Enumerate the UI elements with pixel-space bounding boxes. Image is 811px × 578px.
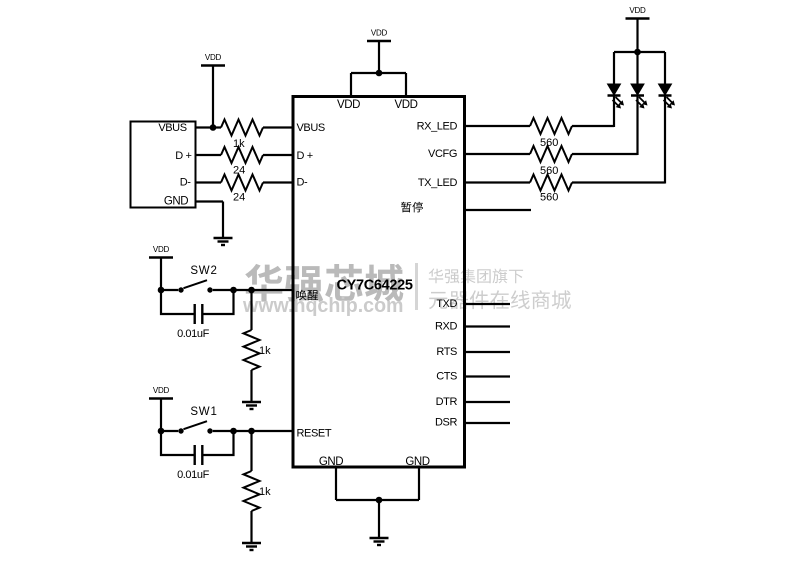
ground (connector GND) bbox=[214, 238, 233, 245]
label 唤醒 (wake pin) bbox=[296, 290, 318, 301]
svg-text:SW1: SW1 bbox=[190, 406, 217, 418]
LED D2 (VCFG) bbox=[631, 84, 648, 109]
svg-text:24: 24 bbox=[233, 192, 245, 204]
svg-text:D +: D + bbox=[175, 150, 191, 162]
svg-text:1k: 1k bbox=[259, 345, 271, 357]
wire resistor bottom lead (SW2) bbox=[250, 370, 252, 402]
IC box white fill (under watermark) bbox=[293, 97, 465, 468]
junction SW1 resistor node bbox=[248, 428, 255, 435]
svg-text:GND: GND bbox=[164, 196, 188, 208]
svg-text:VDD: VDD bbox=[394, 99, 417, 111]
svg-text:VBUS: VBUS bbox=[158, 122, 186, 134]
wire GND stub left (IC bottom) bbox=[335, 468, 337, 500]
svg-text:RXD: RXD bbox=[435, 321, 457, 333]
capacitor 0.01uF (SW2) bbox=[195, 304, 203, 324]
junction SW1 capacitor node bbox=[230, 428, 237, 435]
wire TX_LED stub bbox=[465, 181, 531, 183]
wire RX_LED stub bbox=[465, 125, 531, 127]
power symbol VDD (VBUS pull-up) bbox=[201, 53, 225, 66]
resistor 560 (TX_LED) bbox=[530, 175, 572, 191]
ground (SW2 pull-down) bbox=[242, 402, 261, 409]
wire capacitor right leg (SW1) bbox=[204, 431, 234, 455]
switch SW1 bbox=[178, 421, 212, 433]
resistor 1k (pull-down, SW1) bbox=[244, 471, 260, 511]
watermark 元器件在线商城 bbox=[429, 290, 571, 309]
wire VDD bracket horizontal bbox=[351, 72, 406, 74]
resistor 560 (RX_LED) bbox=[530, 118, 572, 134]
svg-text:RX_LED: RX_LED bbox=[417, 121, 458, 133]
wire SW1 output to IC bbox=[213, 430, 292, 432]
svg-text:VDD: VDD bbox=[371, 29, 388, 38]
wire resistor top lead (SW2) bbox=[250, 290, 252, 330]
svg-text:560: 560 bbox=[540, 192, 558, 204]
svg-text:RESET: RESET bbox=[297, 428, 332, 440]
junction SW2 capacitor node bbox=[230, 287, 237, 294]
svg-text:www.hqchip.com: www.hqchip.com bbox=[242, 295, 403, 317]
svg-text:VDD: VDD bbox=[337, 99, 360, 111]
junction GND bracket node bbox=[376, 497, 383, 504]
wire VDD drop to VBUS node bbox=[212, 66, 214, 128]
switch SW2 bbox=[178, 280, 212, 292]
svg-text:VBUS: VBUS bbox=[297, 122, 325, 134]
wire D- row resistor to IC bbox=[263, 181, 292, 183]
watermark divider bar bbox=[415, 263, 418, 310]
wire LED supply bus bbox=[614, 51, 665, 53]
wire VDD drop (SW2) bbox=[160, 258, 162, 291]
svg-text:D +: D + bbox=[297, 150, 313, 162]
wire TXD stub bbox=[465, 303, 511, 305]
wire suspend stub bbox=[465, 209, 532, 211]
wire GND drop to ground bbox=[378, 500, 380, 538]
wire RX_LED resistor to LED1 bbox=[572, 125, 614, 127]
wire VBUS row connector to resistor bbox=[196, 126, 222, 128]
svg-text:D-: D- bbox=[180, 177, 192, 189]
wire CTS stub bbox=[465, 375, 511, 377]
watermark 华强集团旗下 bbox=[429, 269, 523, 284]
wire connector GND horizontal bbox=[196, 200, 224, 202]
junction SW2 resistor node bbox=[248, 287, 255, 294]
svg-text:VDD: VDD bbox=[153, 245, 170, 254]
wire VDD stub right (IC top) bbox=[405, 73, 407, 96]
power symbol VDD (SW1) bbox=[149, 386, 173, 399]
label 暂停 (suspend pin) bbox=[401, 202, 423, 213]
wire VCFG resistor to LED2 bbox=[572, 153, 638, 155]
svg-text:GND: GND bbox=[319, 456, 343, 468]
wire RTS stub bbox=[465, 351, 511, 353]
wire VBUS row resistor to IC bbox=[263, 126, 292, 128]
svg-text:SW2: SW2 bbox=[190, 265, 217, 277]
svg-text:RTS: RTS bbox=[436, 346, 457, 358]
wire LED1 cathode down bbox=[613, 96, 615, 128]
wire D- row connector to resistor bbox=[196, 181, 222, 183]
wire resistor top lead (SW1) bbox=[250, 431, 252, 471]
connector box white fill (under watermark) bbox=[131, 122, 196, 208]
wire capacitor left leg (SW2) bbox=[161, 290, 194, 314]
resistor 560 (VCFG) bbox=[530, 146, 572, 162]
power symbol VDD (LED supply) bbox=[626, 6, 650, 19]
resistor 24 (D- series) bbox=[221, 175, 263, 191]
wire DSR stub bbox=[465, 422, 511, 424]
junction SW2 left node bbox=[158, 287, 165, 294]
svg-text:GND: GND bbox=[405, 456, 429, 468]
wire LED supply drop bbox=[636, 19, 638, 53]
capacitor 0.01uF (SW1) bbox=[195, 445, 203, 465]
IC U1 CY7C64225 box bbox=[293, 97, 465, 468]
wire VDD supply drop (IC top) bbox=[378, 41, 380, 73]
wire VDD drop (SW1) bbox=[160, 399, 162, 432]
svg-text:0.01uF: 0.01uF bbox=[177, 328, 210, 340]
svg-text:DSR: DSR bbox=[435, 417, 457, 429]
svg-text:VDD: VDD bbox=[205, 53, 222, 62]
wire D+ row resistor to IC bbox=[263, 154, 292, 156]
power symbol VDD (SW2) bbox=[149, 245, 173, 258]
svg-text:VCFG: VCFG bbox=[428, 148, 457, 160]
wire capacitor right leg (SW2) bbox=[204, 290, 234, 314]
svg-text:1k: 1k bbox=[259, 486, 271, 498]
svg-text:VDD: VDD bbox=[153, 386, 170, 395]
svg-text:VDD: VDD bbox=[629, 6, 646, 15]
junction VDD bracket node bbox=[376, 70, 383, 77]
wire connector GND vertical bbox=[222, 202, 224, 239]
wire VDD stub left (IC top) bbox=[350, 73, 352, 96]
ground (IC GND) bbox=[370, 538, 389, 545]
wire LED3 cathode down bbox=[664, 96, 666, 184]
wire LED1 anode bbox=[613, 52, 615, 85]
USB connector J1 box bbox=[131, 122, 196, 208]
resistor 1k (VBUS series) bbox=[221, 120, 263, 136]
wire RXD stub bbox=[465, 325, 511, 327]
resistor 24 (D+ series) bbox=[221, 147, 263, 163]
LED D1 (RX) bbox=[608, 84, 625, 109]
junction VBUS/VDD node bbox=[210, 124, 217, 131]
wire LED2 anode bbox=[636, 52, 638, 85]
svg-text:D-: D- bbox=[297, 177, 309, 189]
svg-text:0.01uF: 0.01uF bbox=[177, 469, 210, 481]
svg-text:DTR: DTR bbox=[436, 396, 458, 408]
junction SW1 left node bbox=[158, 428, 165, 435]
LED D3 (TX) bbox=[659, 84, 676, 109]
svg-text:CTS: CTS bbox=[436, 371, 457, 383]
resistor 1k (pull-down, SW2) bbox=[244, 330, 260, 370]
wire VCFG stub bbox=[465, 153, 531, 155]
svg-text:TX_LED: TX_LED bbox=[418, 177, 458, 189]
wire D+ row connector to resistor bbox=[196, 154, 222, 156]
wire GND bracket horizontal bbox=[336, 499, 419, 501]
power symbol VDD (IC supply) bbox=[367, 29, 391, 42]
wire SW2 left lead bbox=[161, 289, 178, 291]
wire SW1 left lead bbox=[161, 430, 178, 432]
wire TX_LED resistor to LED3 bbox=[572, 181, 665, 183]
svg-text:TXD: TXD bbox=[436, 298, 457, 310]
junction LED bus node bbox=[634, 49, 641, 56]
svg-text:560: 560 bbox=[540, 137, 558, 149]
wire LED3 anode bbox=[664, 52, 666, 85]
watermark 华强芯城 logo text bbox=[245, 264, 403, 302]
wire capacitor left leg (SW1) bbox=[161, 431, 194, 455]
wire GND stub right (IC bottom) bbox=[418, 468, 420, 500]
wire DTR stub bbox=[465, 401, 511, 403]
ground (SW1 pull-down) bbox=[242, 543, 261, 550]
wire resistor bottom lead (SW1) bbox=[250, 511, 252, 543]
wire SW2 output to IC bbox=[213, 289, 292, 291]
svg-text:CY7C64225: CY7C64225 bbox=[337, 278, 414, 294]
wire LED2 cathode down bbox=[636, 96, 638, 156]
svg-text:560: 560 bbox=[540, 165, 558, 177]
